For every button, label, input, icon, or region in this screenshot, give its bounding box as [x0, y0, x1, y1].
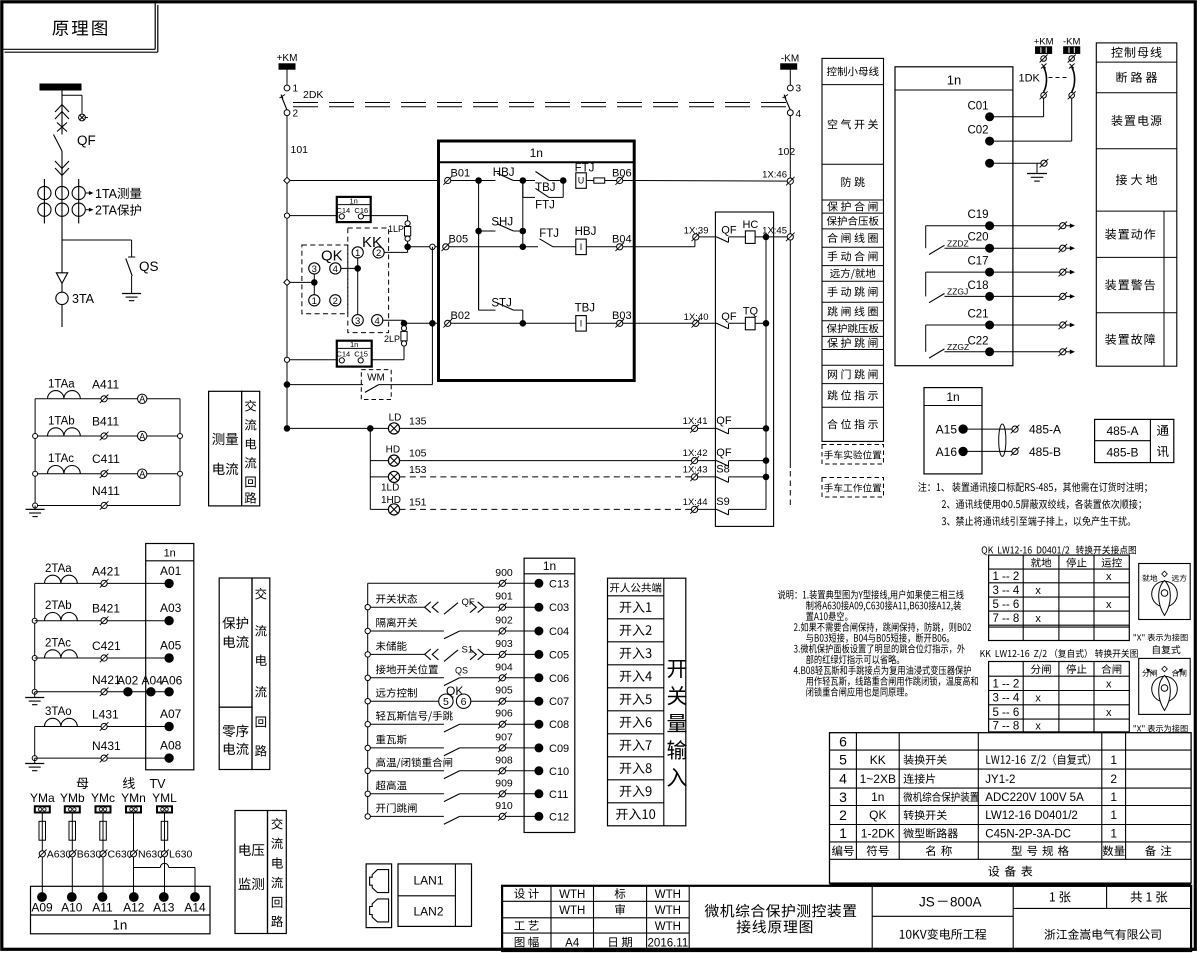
wire B02 row inside [451, 322, 576, 324]
mini busbar YMb [65, 806, 80, 812]
terminal 903 [499, 651, 505, 657]
label box 测量电流 [209, 391, 242, 506]
terminal L431 [101, 723, 107, 729]
junction circles measurement buses [33, 434, 38, 439]
wire+terminal+arrow C17 [990, 271, 1060, 273]
CT 1TAc [48, 466, 81, 474]
terminal 904 [499, 675, 505, 681]
wire row B421 [35, 620, 169, 622]
wire YMb [71, 813, 73, 822]
wire bus to C14 [287, 359, 337, 361]
wire bus to 1HD [370, 508, 388, 510]
svg-text:B03: B03 [612, 310, 632, 322]
wire HD to 1X:42 [400, 460, 692, 462]
notes 说明 [778, 590, 785, 599]
svg-text:LD: LD [389, 413, 402, 424]
svg-text:1~2XB: 1~2XB [860, 772, 896, 786]
svg-text:TBJ: TBJ [575, 303, 595, 315]
terminal dot A05 [165, 654, 173, 662]
label 控制母线 [1111, 47, 1122, 58]
svg-text:908: 908 [495, 754, 513, 766]
label box 交流电流回路 measurement [242, 391, 260, 506]
rotary diagram KK [1139, 658, 1191, 714]
junction circles protection bus [32, 618, 37, 623]
terminal C630 [100, 851, 106, 857]
sheet count cells [1012, 886, 1014, 951]
terminal 910 [499, 813, 505, 819]
comm table 485 [1095, 419, 1174, 462]
terminal dot A07 [165, 722, 173, 730]
terminal dot A01 [165, 579, 173, 587]
caption KK table [980, 650, 985, 657]
svg-text:1n: 1n [350, 196, 358, 205]
svg-text:C01: C01 [967, 100, 988, 112]
svg-text:485-B: 485-B [1106, 446, 1138, 460]
svg-text:x: x [1035, 585, 1041, 597]
riser wire B05-B02-WM [431, 247, 433, 385]
svg-text:A02: A02 [117, 674, 139, 688]
svg-text:1: 1 [1110, 753, 1117, 767]
CT 3TAo [45, 718, 78, 726]
company cell [1044, 929, 1055, 940]
title block outer [502, 886, 1191, 951]
svg-text:C411: C411 [92, 452, 120, 466]
header 停止 [1066, 558, 1076, 568]
svg-text:QS: QS [139, 259, 159, 274]
ground measurement bus [34, 506, 36, 510]
svg-text:1TAb: 1TAb [48, 416, 75, 428]
svg-text:909: 909 [495, 777, 513, 789]
svg-text:A07: A07 [160, 707, 182, 721]
wire B01 row [451, 180, 496, 182]
ammeter [138, 431, 147, 440]
dashed box KK [348, 228, 389, 333]
svg-text:YMb: YMb [60, 791, 85, 805]
svg-text:WTH: WTH [559, 905, 585, 917]
svg-text:YMa: YMa [30, 791, 55, 805]
row 904 接地开关位置 [365, 675, 370, 680]
terminal 1X:42 [692, 458, 698, 464]
svg-text:7 -- 8: 7 -- 8 [992, 613, 1019, 625]
wire to dot [506, 793, 535, 795]
QF auxiliary contact box [715, 212, 773, 526]
terminal dot A10 [67, 893, 76, 902]
label 设备表 [988, 866, 999, 877]
svg-text:HBJ: HBJ [575, 226, 597, 238]
breaker 1DK pole2 [1069, 64, 1075, 69]
RJ45 jacks box [366, 864, 392, 928]
title cell 设 计 [514, 888, 525, 898]
svg-text:A08: A08 [160, 739, 182, 753]
svg-text:153: 153 [409, 464, 427, 476]
terminal B03 [617, 320, 623, 326]
terminal 4 [787, 110, 793, 116]
terminal dot C22 [986, 348, 994, 356]
terminal A421 [101, 580, 107, 586]
wire row N421 [35, 691, 169, 693]
header 分闸 [1031, 664, 1041, 674]
svg-text:1DK: 1DK [1019, 73, 1041, 85]
terminal L630 [161, 851, 167, 857]
label 保护跳压板 [827, 324, 837, 334]
vertical feed B01-SHJ-STJ [478, 181, 480, 311]
terminal dot A15 [959, 425, 967, 433]
wire row A421 [35, 582, 169, 584]
wire bus to 1LD [370, 476, 388, 478]
row 905 远方控制 [365, 699, 370, 704]
x mark [57, 123, 67, 132]
left bus measurement [34, 399, 36, 506]
svg-text:C630: C630 [108, 849, 133, 861]
svg-text:900: 900 [495, 567, 513, 579]
wire row C421 [35, 657, 169, 659]
terminal dot C04 [535, 627, 543, 635]
svg-text:1X:46: 1X:46 [762, 170, 787, 181]
svg-text:A06: A06 [161, 674, 183, 688]
labels 母 线 TV [77, 778, 89, 789]
wire to dot [506, 582, 535, 584]
label 装置警告 [1105, 279, 1116, 290]
row 902 隔离开关 [365, 628, 370, 633]
svg-text:C21: C21 [967, 309, 988, 321]
svg-text:N431: N431 [92, 739, 121, 753]
svg-text:+KM: +KM [277, 53, 298, 64]
svg-text:1: 1 [839, 825, 847, 841]
wire YMa [41, 813, 43, 822]
svg-text:3: 3 [839, 789, 847, 805]
svg-text:1X:40: 1X:40 [684, 312, 709, 323]
row 901 开关状态 [365, 605, 370, 610]
project cell 10KV变电所工程 [900, 930, 905, 939]
label 开入6 [620, 717, 632, 728]
ground protection bus [34, 692, 36, 698]
label box 电压监测 [235, 811, 268, 934]
terminal 1X:44 [692, 506, 698, 512]
terminal N421 [101, 689, 107, 695]
terminal 485-B [1012, 448, 1018, 454]
svg-text:C09: C09 [549, 743, 569, 755]
svg-text:2TAb: 2TAb [45, 600, 72, 612]
wire to dot [506, 630, 535, 632]
svg-text:SHJ: SHJ [491, 217, 513, 229]
resistor [594, 178, 605, 183]
svg-text:C05: C05 [549, 649, 569, 661]
arrester stub [62, 94, 82, 96]
terminal dot A16 [959, 447, 967, 455]
label 装置故障 [1105, 334, 1116, 345]
notes 注 [918, 482, 926, 492]
header 停止 [1066, 664, 1076, 674]
title cell 工 艺 [514, 921, 524, 929]
svg-text:3TAo: 3TAo [45, 706, 72, 718]
wire bus to QK [287, 281, 314, 283]
mini busbar YML [157, 806, 172, 812]
svg-text:QS: QS [455, 665, 468, 675]
label box 交流电流回路 protection [252, 578, 270, 770]
svg-text:903: 903 [495, 638, 513, 650]
terminal 1X:45 [787, 234, 793, 240]
svg-text:QF: QF [716, 447, 732, 459]
svg-text:1X:39: 1X:39 [684, 226, 709, 237]
svg-text:1X:43: 1X:43 [683, 464, 708, 475]
function label column box [822, 58, 884, 441]
svg-text:C14: C14 [336, 350, 350, 359]
CT 3TA [56, 292, 68, 304]
terminal A411 [101, 396, 107, 402]
ammeter [138, 469, 147, 478]
svg-text:FTJ: FTJ [535, 200, 555, 212]
QK contact 3 [309, 263, 320, 274]
title cell 图 幅 [515, 937, 525, 947]
KK 1-3 vertical wire + junction [357, 258, 359, 315]
svg-text:7 -- 8: 7 -- 8 [992, 721, 1019, 733]
label 手动合闸 [828, 251, 838, 261]
wire+terminal+arrow C22 [990, 351, 1060, 353]
svg-text:A: A [139, 469, 145, 479]
terminal B630 [69, 851, 75, 857]
terminal 905 [499, 698, 505, 704]
CT 2TAb [45, 613, 78, 621]
wire to dot [506, 747, 535, 749]
left bus protection [34, 583, 36, 691]
fuse YMa [39, 821, 46, 840]
svg-text:A04: A04 [142, 674, 164, 688]
left bus zero-seq [34, 727, 36, 759]
label box 零序电流 [219, 707, 252, 769]
row 907 重瓦斯 [365, 745, 370, 750]
row 900 common [368, 582, 500, 584]
terminal N630 [130, 851, 136, 857]
KK contact 4 [372, 315, 383, 326]
ground zero-seq bus [34, 758, 36, 763]
svg-text:1: 1 [1110, 790, 1117, 804]
label 保护合压板 [827, 216, 837, 226]
wire WM row + contact [287, 384, 363, 386]
feeder continues [61, 240, 63, 273]
terminal dot C21 [986, 321, 994, 329]
drawout plug chevrons upper [55, 105, 69, 113]
svg-text:A12: A12 [123, 901, 145, 915]
caption X mark KK [1134, 725, 1136, 727]
junction dot 1LP-B05 [405, 244, 411, 250]
right bus measurement [179, 399, 181, 506]
1n box C14 C16 [337, 197, 371, 222]
1n device box top right [895, 67, 1013, 366]
terminal dot C13 [535, 579, 543, 587]
terminal 908 [499, 768, 505, 774]
wire row N411 [35, 505, 180, 507]
svg-text:1: 1 [1110, 808, 1117, 822]
svg-text:5: 5 [443, 696, 449, 708]
contact ZZGZ [926, 324, 990, 326]
svg-text:135: 135 [409, 416, 427, 428]
svg-text:901: 901 [495, 591, 513, 603]
CT 2TAc [45, 650, 78, 658]
svg-text:ZZDZ: ZZDZ [947, 239, 969, 249]
terminal B06 [617, 177, 623, 183]
wire to dot [506, 677, 535, 679]
svg-text:TV: TV [150, 777, 167, 791]
CT 2TAa [45, 575, 78, 583]
1n box voltage terminals [31, 886, 211, 934]
label 开入2 [620, 625, 632, 636]
svg-text:LAN1: LAN1 [413, 874, 443, 888]
svg-text:C13: C13 [549, 578, 569, 590]
drawing title text [705, 904, 719, 918]
terminal dot C17 [986, 268, 994, 276]
wire+terminal+arrow C21 [990, 324, 1060, 326]
terminal 900 [499, 580, 505, 586]
svg-text:A05: A05 [160, 639, 182, 653]
CT secondary arrows [86, 192, 92, 194]
svg-text:B421: B421 [92, 602, 120, 616]
svg-text:L431: L431 [92, 708, 119, 722]
wire YMc [102, 813, 104, 822]
svg-text:907: 907 [495, 731, 513, 743]
terminal B05 [443, 244, 449, 250]
svg-text:1: 1 [1110, 826, 1117, 840]
svg-text:C17: C17 [967, 256, 988, 268]
dashed wire 1HD to 1X:44 [400, 508, 692, 510]
1DK linkage dashed [1049, 77, 1067, 79]
contact TBJ main [523, 180, 535, 182]
CT vertical conductors [43, 179, 45, 224]
wire YML [164, 813, 166, 822]
svg-text:B01: B01 [451, 168, 471, 180]
svg-text:C03: C03 [549, 602, 569, 614]
svg-text:YML: YML [152, 791, 177, 805]
fuse YML [161, 821, 168, 840]
svg-text:WTH: WTH [655, 905, 681, 917]
svg-text:2LP: 2LP [384, 334, 400, 344]
row 906 轻瓦斯信号/手跳 [365, 722, 370, 727]
wire B03 to 1X40 [623, 322, 693, 324]
terminal dot C10 [535, 767, 543, 775]
terminal 3 [787, 85, 793, 91]
header 运控 [1102, 558, 1112, 567]
wire A630 to A09 [41, 857, 43, 893]
title box 原理图 [2, 48, 155, 50]
terminal B411 [101, 433, 107, 439]
breaker 2DK pole2 blade [784, 95, 786, 99]
terminal C411 [101, 471, 107, 477]
inner bus wire [765, 237, 767, 510]
KK return arrows [1148, 670, 1153, 674]
ground symbol device [1036, 163, 1038, 173]
wire A16 out [967, 450, 1011, 452]
terminal A630 [39, 851, 45, 857]
device label column box [1096, 43, 1177, 366]
wire -KM dashed tail [789, 471, 791, 508]
LAN label box [398, 864, 472, 927]
svg-text:485-B: 485-B [1029, 445, 1061, 459]
wire C16 to 1LP [364, 215, 408, 217]
QK contact 2 [330, 295, 341, 306]
disconnector QS [128, 256, 135, 258]
terminal dot A03 [165, 617, 173, 625]
svg-text:2TA: 2TA [95, 204, 118, 218]
svg-text:ZZGJ: ZZGJ [947, 287, 968, 297]
terminal B421 [101, 618, 107, 624]
terminal C421 [101, 655, 107, 661]
svg-text:105: 105 [409, 448, 427, 460]
input table 开入 [608, 578, 686, 826]
svg-text:910: 910 [495, 800, 513, 812]
svg-text:3: 3 [355, 316, 360, 327]
busbar [40, 84, 81, 90]
svg-text:LAN2: LAN2 [413, 905, 443, 919]
arrow head down [56, 273, 67, 284]
svg-text:4: 4 [839, 771, 847, 787]
svg-text:800A: 800A [950, 894, 982, 909]
row 910 开门跳闸 [365, 814, 370, 819]
junction dot B02 riser [430, 321, 436, 327]
title cell 审 [615, 904, 625, 915]
junction dot 2LP-B02 [401, 321, 407, 327]
svg-text:485-A: 485-A [1029, 423, 1061, 437]
inner narrow column line [1163, 211, 1165, 366]
svg-text:A14: A14 [184, 901, 206, 915]
breaker QF blade [54, 135, 63, 152]
svg-text:1X:44: 1X:44 [683, 497, 708, 508]
label 空气开关 [828, 119, 837, 129]
KK contact 3 [352, 315, 363, 326]
wire -KM vertical [789, 116, 791, 468]
terminal +KM top [1041, 56, 1047, 62]
KK contact 1 [352, 247, 363, 258]
title cell 日 期 [609, 937, 617, 947]
wire +KM down [286, 69, 288, 85]
header 合闸 [1102, 664, 1112, 674]
RJ45 jack LAN2 [370, 899, 389, 922]
svg-text:x: x [1106, 678, 1112, 690]
1n box switch inputs [524, 558, 575, 832]
label 开入5 [620, 694, 632, 705]
svg-text:-KM: -KM [1063, 37, 1081, 48]
svg-text:2016.11: 2016.11 [648, 937, 689, 949]
CT 1TAb [48, 428, 81, 436]
terminal 1X:46 [787, 178, 793, 184]
1n box protection terminals [146, 544, 194, 770]
label box 交流电流回路 voltage [268, 811, 287, 934]
svg-text:YMn: YMn [121, 791, 146, 805]
svg-text:x: x [1035, 721, 1041, 733]
CT 1TAa [48, 391, 81, 399]
title cell 标 [615, 888, 626, 899]
equip header row [832, 845, 842, 856]
svg-text:x: x [1106, 599, 1112, 611]
svg-text:HBJ: HBJ [493, 167, 515, 179]
svg-text:HD: HD [386, 445, 400, 456]
svg-text:I: I [580, 319, 583, 329]
contact ZZDZ [926, 225, 990, 227]
svg-text:902: 902 [495, 615, 513, 627]
wire YMn [133, 813, 135, 822]
svg-text:L630: L630 [169, 849, 193, 861]
svg-text:A03: A03 [160, 601, 182, 615]
label 跳闸线圈 [827, 306, 837, 316]
bus +KM bar [279, 64, 295, 69]
svg-text:N411: N411 [92, 484, 120, 498]
wire to dot [506, 700, 535, 702]
fuse YMc [100, 821, 107, 840]
svg-text:3 -- 4: 3 -- 4 [992, 693, 1019, 705]
terminal dot C18 [986, 292, 994, 300]
wire B02 row left [404, 322, 439, 324]
label 网门跳闸 [828, 370, 837, 379]
svg-text:C45N-2P-3A-DC: C45N-2P-3A-DC [985, 828, 1071, 840]
wire row L431 [35, 726, 169, 728]
